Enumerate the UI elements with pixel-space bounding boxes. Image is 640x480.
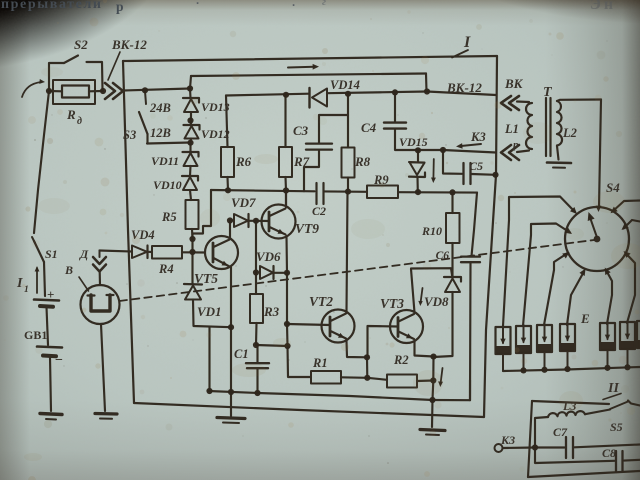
svg-text:VD14: VD14 (330, 78, 360, 92)
svg-text:VD10: VD10 (153, 178, 182, 192)
svg-text:R4: R4 (158, 262, 174, 276)
svg-text:Т: Т (543, 85, 553, 100)
svg-text:II: II (607, 381, 619, 396)
svg-text:К3: К3 (500, 433, 515, 447)
svg-text:C1: C1 (234, 347, 249, 361)
svg-text:C3: C3 (293, 123, 309, 138)
svg-text:−: − (55, 353, 63, 368)
svg-text:I: I (463, 34, 471, 51)
svg-text:24В: 24В (149, 101, 171, 115)
svg-text:В: В (64, 263, 73, 277)
svg-text:12В: 12В (150, 126, 171, 140)
svg-text:ВК-12: ВК-12 (446, 80, 482, 95)
svg-text:Е: Е (580, 311, 590, 326)
svg-text:р: р (116, 0, 124, 14)
svg-text:VT2: VT2 (309, 294, 333, 309)
svg-text:Д: Д (79, 247, 89, 261)
svg-text:С5: С5 (469, 159, 483, 173)
svg-text:R2: R2 (393, 353, 409, 367)
svg-text:VT9: VT9 (295, 221, 319, 236)
svg-text:VD13: VD13 (201, 100, 230, 114)
svg-text:VD12: VD12 (201, 127, 230, 141)
svg-text:г: г (322, 0, 326, 8)
svg-text:L1: L1 (504, 122, 519, 136)
svg-text:С2: С2 (312, 204, 326, 218)
svg-text:VD11: VD11 (151, 154, 179, 168)
svg-text:прерыватели: прерыватели (1, 0, 103, 12)
svg-text:R8: R8 (354, 154, 371, 169)
svg-text:р: р (512, 139, 519, 151)
svg-text:·: · (292, 0, 295, 12)
svg-text:+: + (47, 287, 54, 302)
svg-text:S1: S1 (45, 247, 58, 261)
svg-text:R1: R1 (312, 356, 328, 370)
svg-text:С7: С7 (553, 425, 568, 439)
svg-text:L2: L2 (562, 126, 577, 140)
svg-text:ВК-12: ВК-12 (111, 37, 147, 52)
svg-text:VT5: VT5 (194, 271, 218, 286)
svg-text:д: д (77, 116, 82, 127)
svg-text:R3: R3 (263, 304, 280, 319)
svg-text:Эн: Эн (590, 0, 616, 13)
svg-text:R6: R6 (235, 154, 252, 169)
svg-text:C4: C4 (361, 120, 377, 135)
svg-text:VD6: VD6 (256, 249, 281, 264)
svg-text:S5: S5 (610, 420, 623, 434)
svg-text:S2: S2 (74, 37, 88, 52)
svg-text:·: · (196, 0, 199, 10)
svg-text:R: R (66, 107, 76, 122)
svg-text:VD7: VD7 (231, 195, 256, 210)
svg-text:VD1: VD1 (197, 304, 222, 319)
svg-text:R10: R10 (421, 224, 442, 238)
svg-text:I: I (16, 276, 23, 291)
svg-text:GВ1: GВ1 (24, 328, 47, 342)
svg-text:S3: S3 (123, 128, 136, 142)
svg-text:VT3: VT3 (380, 296, 404, 311)
svg-text:R5: R5 (161, 210, 177, 224)
svg-text:С8: С8 (602, 446, 616, 460)
svg-text:VD8: VD8 (424, 294, 449, 309)
svg-text:К3: К3 (470, 130, 486, 144)
svg-text:ВК: ВК (504, 76, 524, 91)
svg-text:С6: С6 (436, 250, 450, 262)
svg-text:R7: R7 (293, 154, 310, 169)
